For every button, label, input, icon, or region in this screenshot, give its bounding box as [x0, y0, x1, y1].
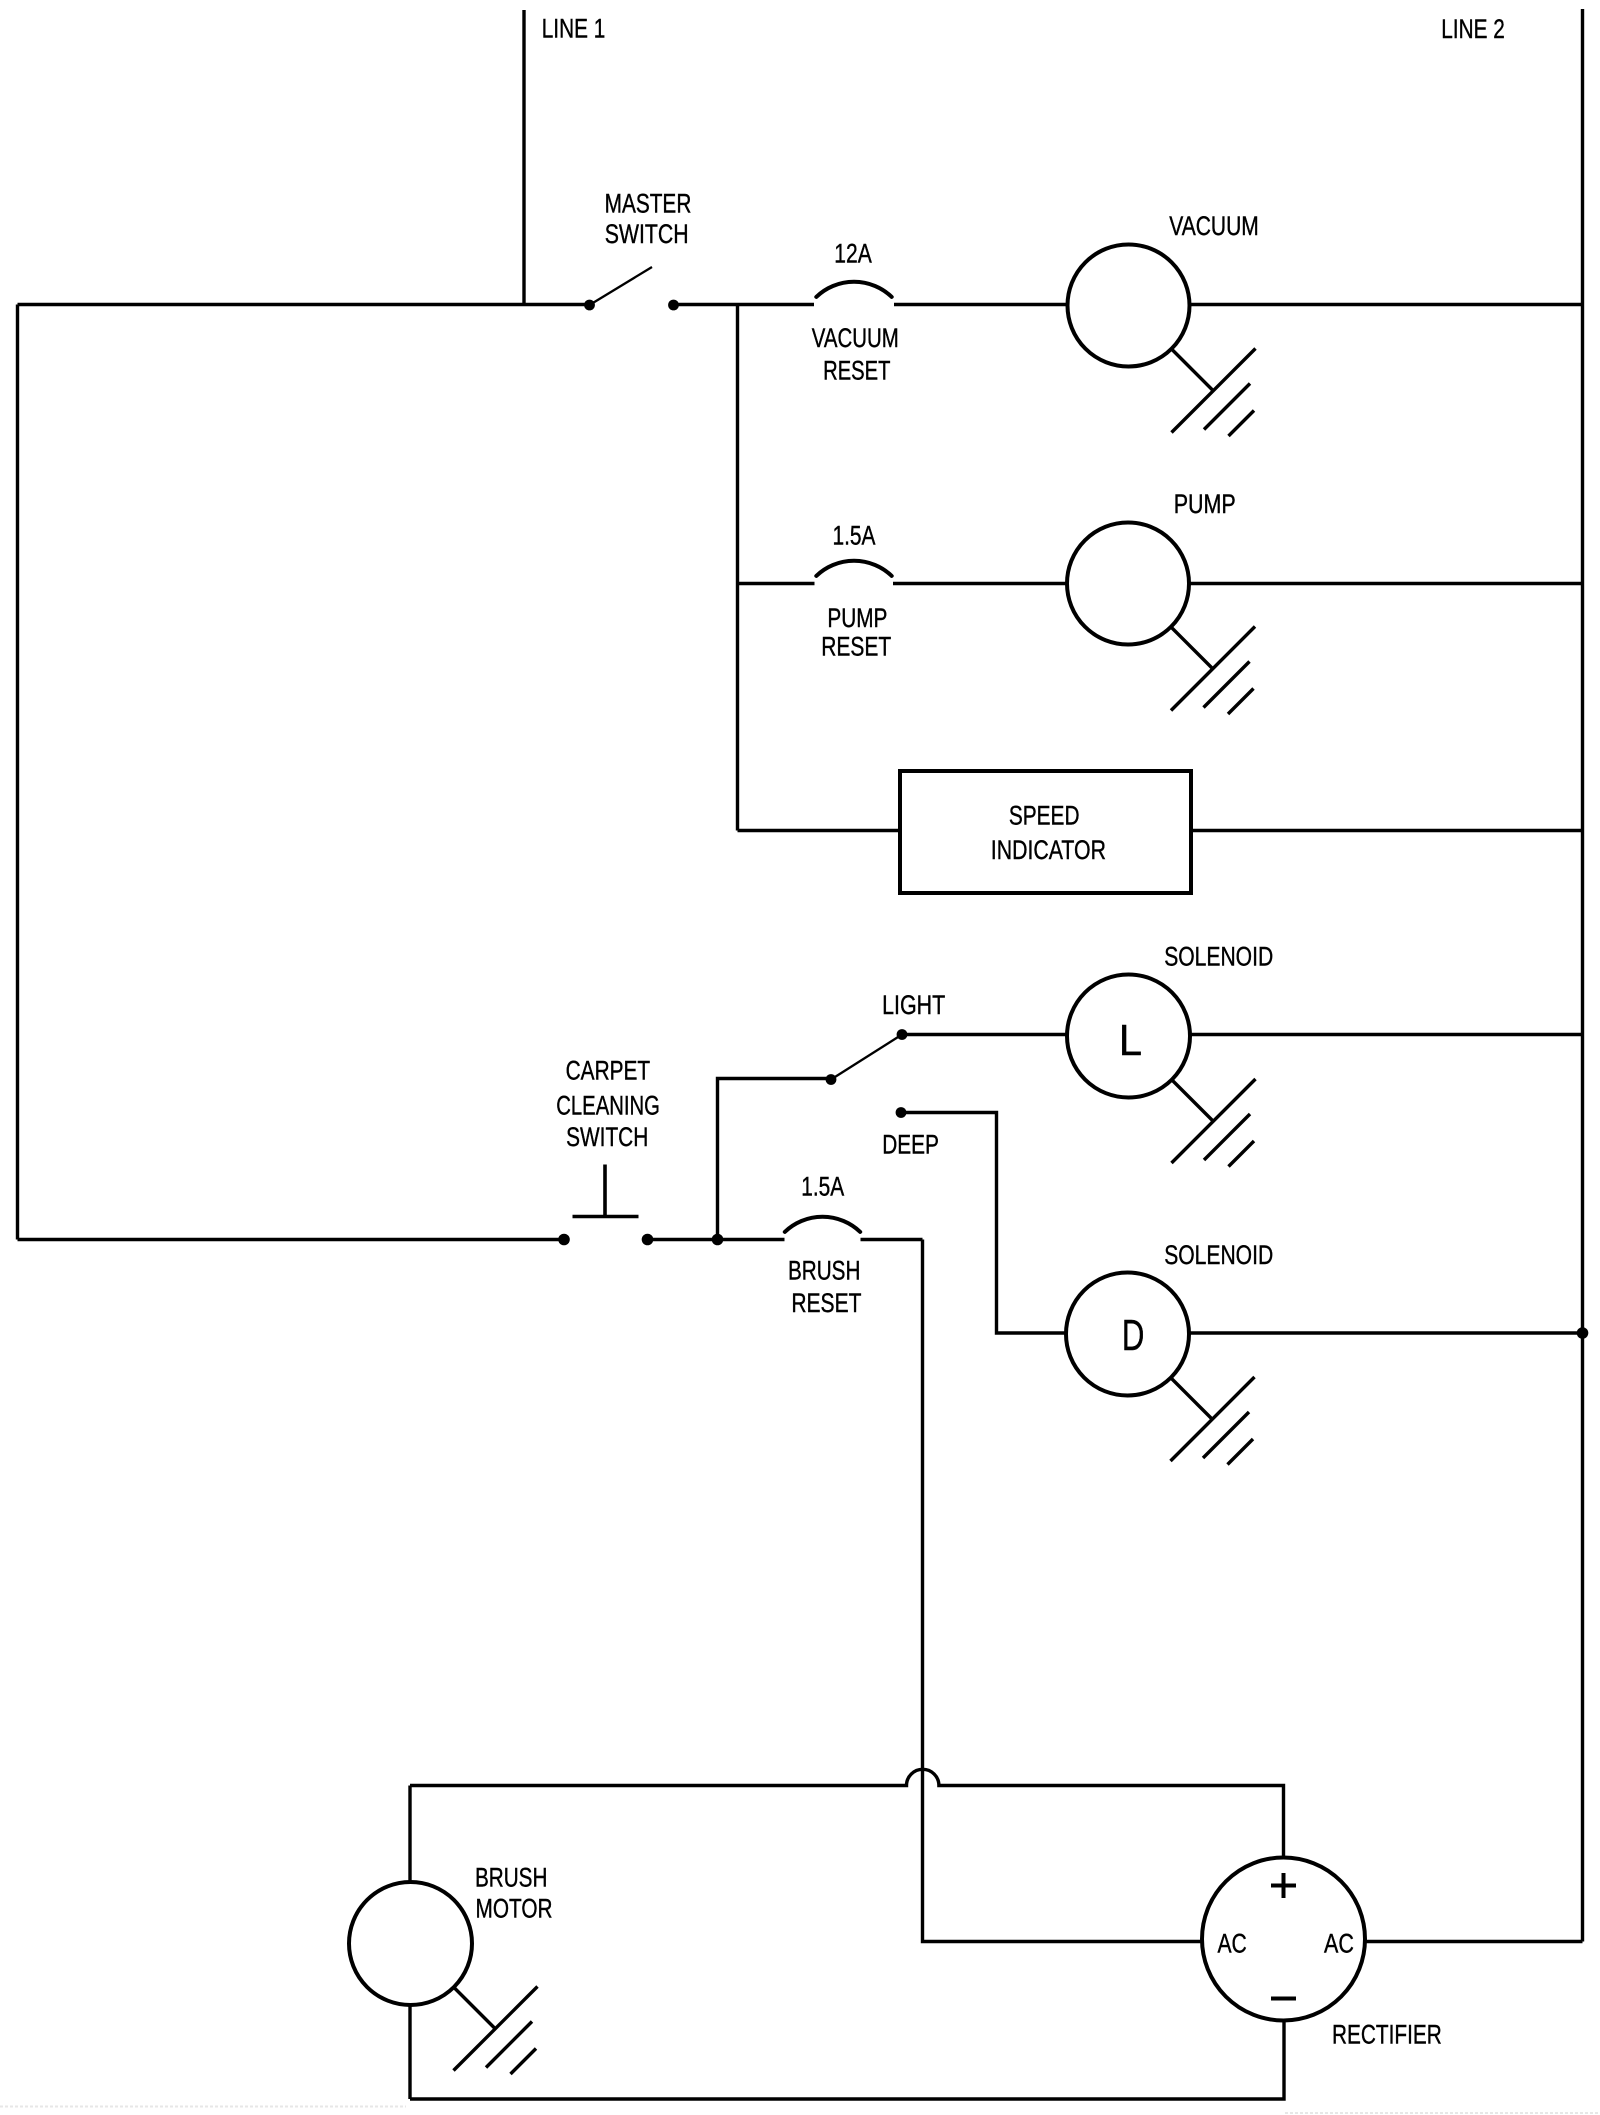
ground at pump motor: [1171, 627, 1255, 715]
wire selector pivot feed: [718, 1079, 832, 1240]
wire left rail: [16, 305, 19, 1240]
wire top row breaker-to-vacuum: [894, 303, 1067, 306]
rectifier minus terminal: [1271, 1997, 1296, 2001]
wire speed row left: [738, 829, 901, 832]
svg-text:SOLENOID: SOLENOID: [1164, 1240, 1273, 1270]
svg-text:INDICATOR: INDICATOR: [991, 835, 1106, 865]
svg-text:LINE 1: LINE 1: [542, 14, 606, 44]
wire speed row right: [1191, 829, 1583, 832]
svg-text:SWITCH: SWITCH: [605, 219, 689, 249]
push button contact left: [558, 1234, 570, 1246]
ground at vacuum motor: [1172, 349, 1256, 437]
ground at brush motor: [454, 1987, 538, 2075]
svg-text:DEEP: DEEP: [882, 1129, 939, 1159]
selector pivot contact: [826, 1074, 837, 1085]
wire branch drop to pump and speed rows: [736, 305, 739, 831]
svg-text:VACUUM: VACUUM: [1169, 211, 1259, 241]
wire pump row breaker-to-pump: [893, 582, 1067, 585]
circuit breaker 12A vacuum reset: [816, 282, 891, 297]
svg-text:SOLENOID: SOLENOID: [1164, 942, 1273, 972]
svg-text:PUMP: PUMP: [1174, 489, 1236, 519]
circuit breaker 1.5A pump reset: [816, 561, 891, 576]
label CARPET CLEANING SWITCH: [556, 1055, 660, 1152]
deep contact: [896, 1107, 907, 1118]
svg-text:BRUSH: BRUSH: [788, 1256, 860, 1286]
carpet cleaning push button: [573, 1165, 639, 1218]
wire solenoid D to line2: [1190, 1331, 1583, 1334]
push button contact right: [642, 1234, 654, 1246]
wire pump row pump-to-line2: [1190, 582, 1583, 585]
wire top row left segment: [18, 303, 590, 306]
ground at solenoid D: [1171, 1377, 1255, 1465]
svg-text:VACUUM: VACUUM: [812, 323, 899, 353]
faint scan artifact line bottom left: [0, 2106, 406, 2108]
master switch blade: [590, 267, 653, 305]
wire brush motor top lead: [408, 1786, 411, 1883]
svg-text:CARPET: CARPET: [566, 1055, 651, 1085]
svg-text:AC: AC: [1217, 1928, 1246, 1958]
light contact: [897, 1029, 908, 1040]
solenoid L: [1067, 975, 1190, 1098]
wire solenoid L to line2: [1190, 1033, 1583, 1036]
svg-text:1.5A: 1.5A: [833, 520, 876, 550]
wire top row vacuum-to-line2: [1190, 303, 1583, 306]
wire deep contact run: [901, 1113, 1066, 1334]
ground at solenoid L: [1172, 1079, 1256, 1167]
svg-text:12A: 12A: [834, 239, 872, 269]
svg-text:CLEANING: CLEANING: [556, 1091, 660, 1121]
svg-text:PUMP: PUMP: [827, 603, 887, 633]
svg-text:MOTOR: MOTOR: [476, 1894, 553, 1924]
speed indicator box: [900, 771, 1191, 893]
selector switch blade: [831, 1035, 902, 1080]
wire top row master-to-breaker: [674, 303, 815, 306]
svg-text:RESET: RESET: [791, 1288, 861, 1318]
wire bottom return: [410, 2021, 1284, 2100]
svg-text:D: D: [1122, 1311, 1145, 1360]
circuit breaker 1.5A brush reset: [785, 1217, 860, 1232]
junction dot line2 solenoid D row: [1577, 1327, 1589, 1339]
wire brush top left with hop: [410, 1769, 1284, 1857]
wire carpet row breaker-to-drop: [861, 1238, 923, 1241]
svg-text:1.5A: 1.5A: [801, 1171, 844, 1201]
motor BRUSH: [349, 1882, 472, 2005]
wire pump row left: [738, 582, 815, 585]
label BRUSH MOTOR: [475, 1862, 553, 1923]
label BRUSH RESET: [788, 1256, 861, 1318]
svg-text:RESET: RESET: [823, 356, 890, 386]
wire LINE 2 rail: [1581, 9, 1584, 1942]
wire rectifier AC right to line2: [1366, 1940, 1583, 1943]
solenoid D: [1066, 1273, 1189, 1396]
wire LINE 1 drop: [522, 10, 525, 305]
label SPEED INDICATOR: [991, 801, 1106, 865]
label VACUUM RESET: [812, 323, 899, 386]
master switch contact right: [668, 300, 679, 311]
wire brush motor bottom lead: [408, 2005, 411, 2099]
faint scan artifact line bottom right: [1285, 2112, 1600, 2114]
svg-text:BRUSH: BRUSH: [475, 1862, 547, 1892]
motor VACUUM: [1068, 245, 1190, 367]
label PUMP RESET: [821, 603, 891, 662]
svg-text:LIGHT: LIGHT: [882, 990, 945, 1020]
svg-text:RECTIFIER: RECTIFIER: [1332, 2019, 1442, 2049]
svg-text:AC: AC: [1324, 1928, 1354, 1958]
svg-text:L: L: [1119, 1016, 1142, 1065]
rectifier plus terminal: [1271, 1873, 1296, 1898]
label MASTER SWITCH: [605, 188, 692, 249]
svg-text:SPEED: SPEED: [1009, 801, 1080, 831]
svg-text:LINE 2: LINE 2: [1441, 14, 1505, 44]
svg-text:SWITCH: SWITCH: [566, 1122, 648, 1152]
junction dot carpet row: [712, 1234, 724, 1246]
rectifier circle: [1202, 1858, 1365, 2021]
wire light contact to solenoid L: [902, 1033, 1067, 1036]
svg-text:RESET: RESET: [821, 632, 891, 662]
wire mid drop to rectifier AC: [923, 1240, 1203, 1942]
master switch contact left: [584, 300, 595, 311]
motor PUMP: [1067, 523, 1189, 645]
svg-text:MASTER: MASTER: [605, 188, 692, 218]
wire carpet row left: [18, 1238, 565, 1241]
wire carpet row button-to-breaker: [648, 1238, 785, 1241]
